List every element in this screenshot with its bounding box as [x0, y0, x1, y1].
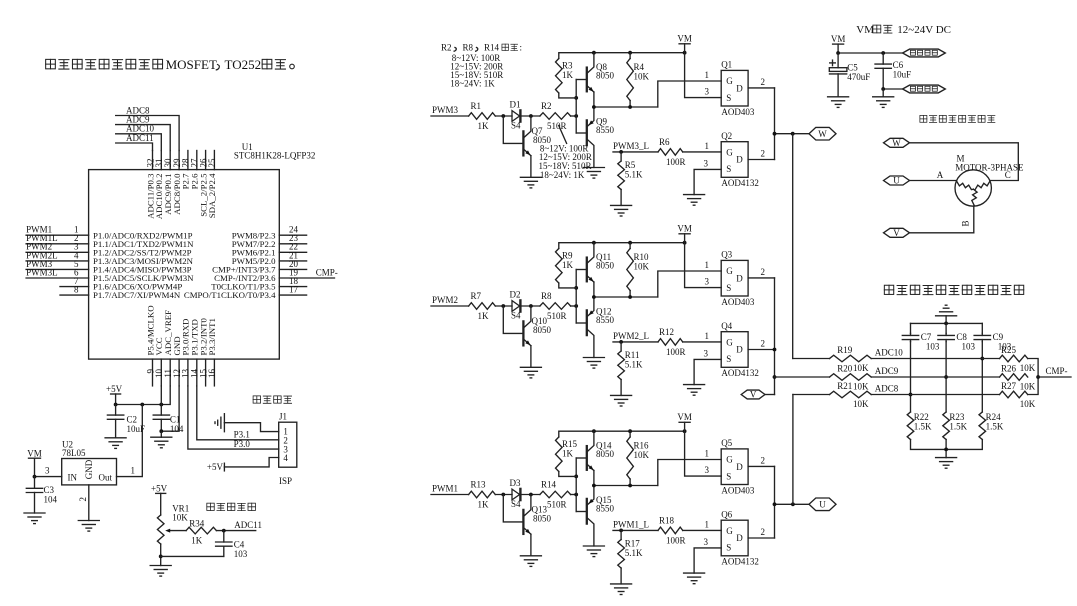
wire low-side S pin to ground	[694, 348, 721, 384]
svg-text:5.1K: 5.1K	[625, 548, 643, 558]
mosfet Q4 AOD4132 (N-ch)	[721, 321, 759, 378]
resistor R1 1K	[469, 101, 496, 131]
wire Q1 drain pin 2	[748, 77, 774, 88]
wire emitter node row	[592, 295, 658, 299]
svg-text:R22: R22	[914, 412, 929, 422]
svg-text:Q2: Q2	[721, 131, 732, 141]
svg-text:AOD403: AOD403	[721, 107, 754, 117]
resistor R23 1.5K	[943, 412, 968, 440]
net tag V at motor	[884, 228, 910, 238]
svg-text:1K: 1K	[478, 500, 490, 510]
wire C9 column	[980, 342, 984, 412]
ground under Q7	[520, 177, 541, 188]
svg-text:C7: C7	[921, 332, 932, 342]
U1 pin 32 ADC11/P0.3	[145, 151, 155, 219]
svg-text:R13: R13	[471, 480, 487, 490]
svg-text:R21: R21	[837, 381, 852, 391]
power VM symbol top right	[831, 34, 846, 53]
svg-text:P3.3/INT1: P3.3/INT1	[207, 318, 217, 355]
wire VM rail	[559, 51, 687, 59]
svg-text:D: D	[736, 533, 743, 543]
wire detector bottom rail	[911, 440, 983, 458]
svg-text:10K: 10K	[634, 72, 650, 82]
svg-text:D1: D1	[510, 100, 521, 110]
wire R14 to base node	[571, 493, 579, 497]
svg-text:8550: 8550	[596, 315, 615, 325]
wire net ADC8 to U1	[116, 105, 179, 150]
wire R15 to base column	[559, 472, 576, 477]
svg-text:ADC11: ADC11	[234, 520, 262, 530]
svg-text:AOD403: AOD403	[721, 485, 754, 495]
power VM symbol	[677, 34, 692, 53]
wire +5V rail	[114, 386, 171, 407]
ground under Q12	[583, 358, 604, 369]
svg-text:18~24V: 1K: 18~24V: 1K	[540, 170, 585, 180]
wire C7 column	[909, 342, 913, 412]
note: R2 value options near Q7	[539, 126, 592, 181]
svg-text:MOSFET: MOSFET	[166, 57, 217, 72]
+5V power symbol at VR1	[151, 484, 168, 516]
svg-text:25: 25	[207, 158, 217, 168]
svg-text:103: 103	[926, 341, 940, 351]
svg-text:VM: VM	[856, 24, 874, 36]
ground (up) above detector	[936, 305, 957, 323]
resistor R3 1K	[556, 59, 574, 94]
svg-text:1.5K: 1.5K	[949, 422, 967, 432]
svg-text:R7: R7	[471, 291, 482, 301]
svg-text:1: 1	[705, 519, 710, 529]
svg-text:C9: C9	[993, 332, 1004, 342]
svg-text:ADC8: ADC8	[875, 384, 899, 394]
svg-text:V: V	[750, 390, 757, 400]
U1 pin 22 PWM6/P2.1	[232, 242, 307, 258]
wire R1 to node	[495, 114, 512, 118]
power VM symbol	[677, 224, 692, 243]
svg-text:R27: R27	[1001, 381, 1017, 391]
U1 reference label	[242, 142, 253, 152]
mosfet Q5 AOD403 (P-ch)	[721, 438, 755, 495]
svg-text:R20: R20	[837, 364, 853, 374]
transistor Q9 8550 (PNP)	[576, 107, 614, 168]
net tag W at motor	[884, 138, 910, 148]
wire VM rail	[559, 241, 687, 249]
wire base column	[574, 80, 578, 134]
svg-text:ADC9: ADC9	[875, 366, 899, 376]
resistor R10 10K	[627, 243, 650, 297]
svg-text:P3.0: P3.0	[234, 439, 251, 449]
svg-text:104: 104	[44, 494, 58, 504]
U1 pin 20 CMP+/INT3/P3.7	[212, 259, 306, 275]
svg-text:8050: 8050	[533, 514, 552, 524]
wire base column	[574, 458, 578, 512]
svg-text:10K: 10K	[172, 513, 188, 523]
svg-text:R14: R14	[484, 43, 500, 53]
+5V power symbol	[106, 384, 123, 405]
net label PWM1_L	[613, 519, 658, 532]
svg-text:8: 8	[74, 285, 79, 295]
U1 pin 14 P3.1/TXD	[190, 319, 200, 386]
capacitor C4 103	[216, 531, 248, 559]
wire VM to high-side S pin	[685, 243, 722, 288]
resistor R18 100R	[658, 516, 686, 546]
net tag U at motor	[884, 176, 910, 186]
resistor R21 10K	[793, 381, 871, 409]
svg-text:510R: 510R	[547, 500, 567, 510]
svg-text:+5V: +5V	[151, 484, 168, 494]
svg-text:R18: R18	[659, 516, 675, 526]
note: R2 R8 R14 value table	[441, 43, 522, 89]
transistor Q14 8050 (NPN)	[576, 431, 614, 485]
svg-text:1K: 1K	[191, 536, 203, 546]
wire C8 column	[944, 342, 948, 412]
svg-text:S4: S4	[511, 311, 521, 321]
wire R3 to base column	[559, 93, 576, 98]
wire ADC8 row	[871, 384, 999, 395]
svg-text:10K: 10K	[1020, 399, 1036, 409]
label 下载串口 (download serial port)	[253, 396, 292, 403]
ground under C1	[151, 431, 172, 448]
resistor R8 510R	[540, 291, 571, 321]
svg-text:8050: 8050	[596, 261, 615, 271]
svg-text:1: 1	[705, 141, 710, 151]
svg-text:12~24V DC: 12~24V DC	[897, 24, 951, 36]
capacitor C3 104	[26, 477, 57, 513]
wire U to motor A terminal	[910, 170, 957, 181]
svg-text:2: 2	[761, 339, 766, 349]
capacitor C7 103	[902, 323, 940, 351]
svg-text:VM: VM	[831, 34, 846, 44]
svg-text:8050: 8050	[596, 71, 615, 81]
ground at J1 pin 1 (rotated)	[215, 414, 224, 432]
resistor R17 5.1K	[618, 530, 643, 584]
capacitor C8 103	[938, 323, 976, 351]
wire base column	[574, 270, 578, 324]
U1 pin 11 ADC_VREF	[163, 310, 173, 386]
svg-text:16: 16	[207, 369, 217, 379]
svg-text:ADC10: ADC10	[875, 348, 904, 358]
mosfet Q6 AOD4132 (N-ch)	[721, 509, 759, 566]
wire C6 to battery- tag	[881, 87, 902, 91]
svg-text:100R: 100R	[666, 347, 686, 357]
svg-text:C8: C8	[956, 332, 967, 342]
svg-text:G: G	[726, 266, 733, 276]
svg-text:10uF: 10uF	[893, 70, 912, 80]
wire net CMP-	[1038, 366, 1071, 377]
wire U2 GND pin 2 to ground	[78, 485, 89, 521]
wire Q6 drain pin 2	[748, 527, 774, 538]
U1 pin 9 P5.4/MCLKO	[145, 305, 155, 386]
svg-text:1: 1	[131, 466, 136, 476]
svg-text:VM: VM	[677, 412, 692, 422]
svg-text:5.1K: 5.1K	[625, 170, 643, 180]
U1 pin 18 T0CLKO/T1/P3.5	[211, 276, 306, 292]
resistor R15 1K	[556, 437, 578, 472]
svg-text:PWM1_L: PWM1_L	[613, 519, 649, 529]
op-amp U1 MCU body STC8H1K28-LQFP32	[89, 170, 280, 360]
wire detector top rail	[911, 322, 983, 326]
ground under R5	[611, 205, 632, 216]
ground under Q15	[583, 546, 604, 557]
svg-text:1.5K: 1.5K	[986, 422, 1004, 432]
svg-text:VM: VM	[27, 449, 42, 459]
resistor R27 10K	[1000, 381, 1036, 409]
transistor Q8 8050 (NPN)	[576, 53, 614, 107]
svg-text:R12: R12	[659, 327, 674, 337]
U1 pin 8 P1.7/ADC7/XI/PWM4N	[60, 285, 181, 301]
wire C4 bottom to ground	[161, 555, 224, 557]
svg-text:10K: 10K	[634, 450, 650, 460]
U1 pin 3 P1.2/ADC2/SS/T2/PWM2P net PWM2	[26, 242, 192, 258]
wire J1 pin 1 to ground	[224, 423, 278, 432]
svg-text:D3: D3	[510, 478, 521, 488]
ground under U2	[78, 521, 99, 532]
svg-text:TO252: TO252	[225, 57, 262, 72]
svg-text:A: A	[937, 170, 944, 180]
svg-text:2: 2	[761, 149, 766, 159]
wire W to motor C terminal	[910, 143, 1019, 181]
capacitor C1 104	[153, 405, 184, 434]
ground at low-side source	[684, 385, 705, 396]
svg-text:10K: 10K	[853, 363, 869, 373]
svg-text:1.5K: 1.5K	[914, 422, 932, 432]
ground under C3	[24, 513, 45, 524]
svg-text:AOD4132: AOD4132	[721, 178, 759, 188]
svg-text:VM: VM	[677, 224, 692, 234]
wire emitter node row	[592, 105, 658, 109]
resistor R9 1K	[556, 249, 574, 284]
motor M MOTOR-3PHASE	[955, 154, 1024, 207]
wire gate drive to high-side G pin	[658, 70, 721, 107]
U1 pin 30 ADC9/P0.1	[163, 151, 173, 215]
svg-text:+5V: +5V	[207, 462, 224, 472]
svg-text:1K: 1K	[562, 449, 574, 459]
svg-text:PWM2: PWM2	[432, 295, 458, 305]
svg-text:D: D	[736, 155, 743, 165]
transistor Q13 8050 (NPN)	[503, 495, 551, 556]
svg-text:CMPO/T1CLKO/T0/P3.4: CMPO/T1CLKO/T0/P3.4	[184, 290, 276, 300]
svg-text:R23: R23	[949, 412, 965, 422]
svg-text:R2: R2	[441, 43, 452, 53]
svg-text:+5V: +5V	[106, 384, 123, 394]
svg-text:D: D	[736, 83, 743, 93]
net tag 电池正极 (battery +)	[903, 49, 946, 57]
wire Q2 drain pin 2	[748, 149, 774, 160]
svg-text:17: 17	[289, 285, 299, 295]
svg-text:R26: R26	[1001, 364, 1017, 374]
U1 pin 26 SCL_2/P2.5	[198, 151, 208, 217]
connector J1 body	[279, 412, 297, 468]
resistor R7 1K	[469, 291, 496, 321]
svg-text:1K: 1K	[562, 70, 574, 80]
title VM电压 12~24V DC	[856, 24, 951, 36]
U1 pin 1 P1.0/ADC0/RXD2/PWM1P net PWM1	[26, 225, 192, 241]
wire net PWM1 input	[431, 484, 469, 495]
svg-text:470uF: 470uF	[847, 72, 870, 82]
wire R12 to low-side G pin	[683, 331, 722, 342]
wire R2 to base node	[571, 114, 579, 118]
U1 pin 31 ADC10/P0.2	[154, 151, 164, 220]
svg-text:R19: R19	[837, 345, 853, 355]
wire gate drive to high-side G pin	[658, 260, 721, 297]
svg-text:1K: 1K	[562, 260, 574, 270]
svg-text:W: W	[818, 129, 827, 139]
wire low-side S pin to ground	[694, 537, 721, 573]
capacitor C2 10uF	[107, 405, 145, 438]
svg-text:1: 1	[705, 331, 710, 341]
svg-text:C5: C5	[847, 63, 858, 73]
ground under VR1	[150, 566, 171, 577]
svg-text:R17: R17	[625, 539, 641, 549]
power VM at U2 input	[27, 449, 42, 477]
svg-text:AOD4132: AOD4132	[721, 368, 759, 378]
svg-text:STC8H1K28-LQFP32: STC8H1K28-LQFP32	[234, 150, 316, 160]
svg-text:R5: R5	[625, 160, 636, 170]
capacitor C5 470uF (polarized)	[829, 53, 870, 97]
wire R34 to ADC11 node	[216, 520, 262, 532]
diode D3 S4	[510, 478, 522, 509]
wire U2 Out pin 1 to +5V rail	[117, 405, 143, 477]
U1 pin 27 P2.6	[190, 151, 200, 190]
resistor R5 5.1K	[618, 152, 643, 206]
svg-text:R24: R24	[986, 412, 1002, 422]
wire VM to high-side S pin	[685, 431, 722, 476]
power VM symbol	[677, 412, 692, 431]
wire R6 to low-side G pin	[683, 141, 722, 152]
net label PWM3_L	[613, 141, 658, 154]
ground under R11	[611, 395, 632, 406]
svg-text:ADC11: ADC11	[126, 133, 154, 143]
svg-text:1K: 1K	[478, 311, 490, 321]
title 比较器反电动势检测电路	[884, 285, 1023, 294]
U1 pin 21 PWM5/P2.0	[232, 250, 307, 266]
svg-text:R11: R11	[625, 350, 640, 360]
wire R8 to base node	[571, 304, 579, 308]
svg-text:R3: R3	[562, 61, 573, 71]
svg-text:D2: D2	[510, 290, 521, 300]
resistor R22 1.5K	[907, 412, 932, 440]
svg-text:R2: R2	[541, 101, 552, 111]
wire net ADC11 to U1	[116, 133, 154, 151]
svg-text:G: G	[726, 148, 733, 158]
svg-text:D: D	[736, 273, 743, 283]
ground under detector	[936, 458, 957, 469]
wire net PWM3 input	[431, 105, 469, 116]
svg-text:CMP-: CMP-	[316, 267, 338, 277]
net tag V	[741, 390, 765, 400]
svg-text:10K: 10K	[853, 382, 869, 392]
svg-text:R34: R34	[189, 518, 205, 528]
svg-text:D: D	[736, 462, 743, 472]
svg-text:C6: C6	[893, 60, 904, 70]
svg-text:R14: R14	[541, 480, 557, 490]
title note (Chinese): 本电路驱动使用大功率MOSFET，TO252封装。	[46, 57, 295, 72]
U1 pin 10 VCC	[154, 337, 164, 386]
svg-text:IN: IN	[68, 472, 78, 482]
U1 pin 24 PWM8/P2.3	[232, 225, 307, 241]
diode D1 S4	[510, 100, 522, 131]
svg-text:104: 104	[170, 424, 184, 434]
svg-text:S4: S4	[511, 499, 521, 509]
transistor Q7 8050 (NPN)	[503, 116, 551, 177]
U1 pin 7 P1.6/ADC6/XO/PWM4P	[60, 276, 182, 292]
U1 pin 28 P2.7	[181, 151, 191, 190]
resistor R19 10K	[793, 345, 872, 373]
net tag U	[809, 498, 836, 511]
resistor R4 10K	[627, 53, 650, 107]
wire gate drive to high-side G pin	[658, 449, 721, 486]
wire R7 to node	[495, 304, 512, 308]
svg-text:MOTOR-3PHASE: MOTOR-3PHASE	[955, 163, 1024, 173]
label ISP	[279, 476, 292, 486]
U1 part label	[234, 150, 316, 160]
net label PWM2_L	[613, 331, 658, 344]
svg-text:SDA_2/P2.4: SDA_2/P2.4	[207, 173, 217, 218]
motor windings	[957, 182, 990, 206]
svg-text:PWM3: PWM3	[432, 105, 459, 115]
svg-text:2: 2	[761, 527, 766, 537]
svg-text:R10: R10	[634, 252, 650, 262]
svg-text:8050: 8050	[533, 325, 552, 335]
wire +5V to J1 pin 4	[224, 458, 278, 467]
svg-text:CMP-: CMP-	[1046, 366, 1068, 376]
resistor R12 100R	[658, 327, 686, 357]
svg-text:1: 1	[705, 449, 710, 459]
wire VM to high-side S pin	[685, 53, 722, 98]
svg-text:1: 1	[705, 70, 710, 80]
wire Q5 drain pin 2	[748, 456, 774, 467]
svg-text:Out: Out	[99, 472, 113, 482]
potentiometer VR1 10K	[157, 504, 189, 545]
resistor R34 1K	[186, 518, 216, 545]
U1 pin 5 P1.4/ADC4/MISO/PWM3P net PWM3	[26, 259, 192, 275]
net tag 电池负极 (battery -)	[903, 85, 946, 93]
ground under R17	[611, 584, 632, 595]
label 电位器调速 (potentiometer speed ctl)	[207, 503, 256, 510]
diode D2 S4	[510, 290, 522, 321]
ground under C2	[105, 438, 126, 449]
wire D1 to R2	[520, 114, 540, 118]
svg-text:1K: 1K	[478, 121, 490, 131]
resistor R16 10K	[627, 431, 650, 485]
wire net ADC10 to U1	[116, 124, 162, 151]
mosfet Q3 AOD403 (P-ch)	[721, 250, 755, 307]
svg-text:100R: 100R	[666, 535, 686, 545]
svg-text:W: W	[892, 138, 901, 148]
U1 pin 15 P3.2/INT0	[198, 318, 208, 386]
svg-text:8050: 8050	[596, 449, 615, 459]
svg-text:B: B	[960, 220, 970, 226]
svg-text:R8: R8	[463, 43, 474, 53]
svg-text:R15: R15	[562, 439, 578, 449]
wire R9 to base column	[559, 283, 576, 288]
U1 pin 29 ADC8/P0.0	[172, 151, 182, 215]
ground at low-side source	[684, 195, 705, 206]
wire emitter node row	[592, 484, 658, 488]
svg-text:S: S	[726, 471, 731, 481]
svg-text:G: G	[726, 76, 733, 86]
svg-text:R8: R8	[541, 291, 552, 301]
resistor R26 10K	[1000, 364, 1036, 392]
svg-text:S: S	[726, 354, 731, 364]
wire net ADC9 to U1	[116, 114, 171, 150]
wire net PWM2 input	[431, 295, 469, 306]
svg-text:R25: R25	[1001, 345, 1017, 355]
wire W column to detector	[792, 134, 794, 359]
ground under C6	[873, 89, 894, 107]
resistor R11 5.1K	[618, 342, 643, 396]
svg-text:R4: R4	[634, 62, 645, 72]
svg-text:2: 2	[761, 267, 766, 277]
